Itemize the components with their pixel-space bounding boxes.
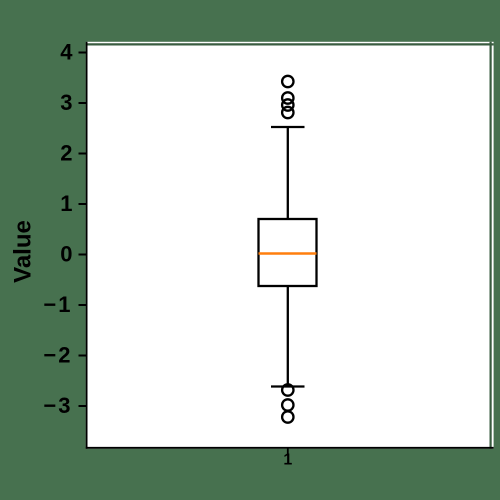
svg-text:Value: Value — [10, 220, 37, 283]
svg-text:2: 2 — [60, 141, 72, 166]
left spine — [86, 42, 88, 449]
svg-text:1: 1 — [60, 191, 72, 216]
svg-text:−2: −2 — [43, 343, 72, 368]
svg-text:3: 3 — [60, 90, 72, 115]
svg-text:1: 1 — [283, 452, 292, 469]
axes background patch — [86, 42, 494, 449]
y tick labels — [43, 40, 73, 419]
x tick — [287, 449, 289, 456]
svg-text:−1: −1 — [43, 292, 72, 317]
median — [259, 252, 317, 255]
right spine — [490, 42, 492, 449]
top spine — [86, 43, 494, 45]
fliers top — [282, 76, 293, 87]
cap top — [271, 126, 305, 128]
whisker top — [287, 127, 289, 219]
cap bottom — [271, 385, 305, 387]
boxplot — [259, 76, 317, 423]
svg-text:0: 0 — [60, 242, 72, 267]
box — [259, 219, 317, 286]
whisker bottom — [287, 286, 289, 387]
y ticks — [79, 53, 87, 407]
fliers bottom — [282, 384, 293, 395]
svg-text:−3: −3 — [43, 393, 72, 418]
bottom spine — [86, 447, 494, 449]
svg-text:4: 4 — [60, 40, 73, 65]
